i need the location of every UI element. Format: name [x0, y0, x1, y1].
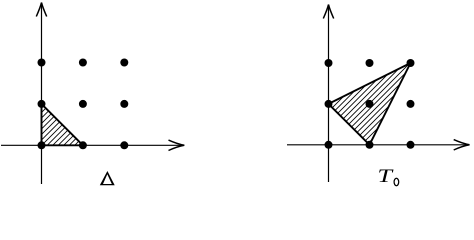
right lattice dot (0,2)	[325, 59, 333, 67]
right x-axis	[287, 140, 470, 150]
left lattice dot (1,0)	[79, 141, 87, 149]
left lattice dot (2,1)	[120, 100, 128, 108]
left y-axis	[36, 3, 46, 184]
right lattice dot (1,2)	[366, 59, 374, 67]
svg-text:T: T	[377, 166, 393, 186]
left lattice dot (2,2)	[120, 59, 128, 67]
left lattice dot (0,0)	[38, 141, 46, 149]
label T0	[377, 166, 398, 186]
right lattice dot (0,0)	[325, 141, 333, 149]
label Δ	[100, 171, 115, 185]
left lattice dot (1,2)	[79, 59, 87, 67]
left x-axis	[1, 140, 184, 150]
left lattice dot (1,1)	[79, 100, 87, 108]
left lattice dot (0,2)	[38, 59, 46, 67]
right lattice dot (2,0)	[407, 141, 415, 149]
triangle T0 (hatched, vertices (0,1),(1,0),(2,2))	[329, 63, 411, 145]
right lattice dot (2,1)	[407, 100, 415, 108]
right lattice dot (1,1)	[366, 100, 374, 108]
right lattice dot (0,1)	[325, 100, 333, 108]
right lattice dot (2,2)	[407, 59, 415, 67]
triangle Δ (hatched, vertices (0,0),(1,0),(0,1))	[42, 104, 83, 145]
left lattice dot (2,0)	[120, 141, 128, 149]
left lattice dot (0,1)	[38, 100, 46, 108]
right y-axis	[323, 5, 333, 182]
right lattice dot (1,0)	[366, 141, 374, 149]
